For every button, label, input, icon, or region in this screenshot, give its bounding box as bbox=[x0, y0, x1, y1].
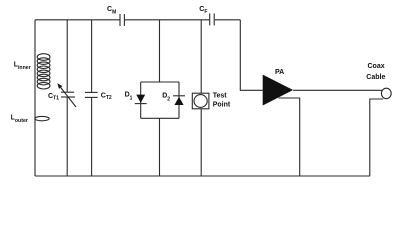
capacitor CT1 variable bbox=[61, 88, 76, 108]
wire bottom rail bbox=[35, 175, 370, 177]
wire left vertical bbox=[34, 20, 36, 176]
wire top right corner down bbox=[240, 20, 262, 91]
wire top rail left segment bbox=[35, 19, 120, 21]
arrowhead CT1 bbox=[57, 83, 62, 89]
diode D2 bbox=[173, 96, 185, 105]
wire diode box right bbox=[178, 82, 180, 118]
wire diode box top bbox=[141, 81, 179, 83]
svg-text:CT2: CT2 bbox=[101, 92, 112, 101]
wire PA lower to ground bbox=[279, 98, 300, 176]
wire CT2 branch bottom bbox=[91, 97, 93, 176]
coax connector circle bbox=[381, 88, 391, 98]
capacitor CT2 bbox=[85, 92, 98, 97]
svg-text:D1: D1 bbox=[125, 91, 133, 101]
svg-text:Coax: Coax bbox=[368, 63, 385, 70]
wire PA output bbox=[293, 89, 383, 91]
svg-text:Point: Point bbox=[213, 101, 231, 108]
svg-text:Linner: Linner bbox=[14, 61, 31, 71]
wire top rail middle segment bbox=[125, 19, 209, 21]
op-amp PA bbox=[263, 75, 293, 106]
capacitor CM bbox=[120, 14, 124, 26]
svg-text:PA: PA bbox=[275, 69, 284, 76]
wire diode box left bbox=[140, 82, 142, 118]
svg-text:CF: CF bbox=[199, 6, 207, 15]
wire coax shield riser bbox=[370, 99, 383, 176]
test point symbol bbox=[192, 93, 209, 109]
wire test point branch top bbox=[200, 20, 202, 93]
wire diode branch down bbox=[159, 118, 161, 176]
inductor L_outer loop bbox=[35, 116, 49, 120]
diode D1 bbox=[135, 95, 147, 104]
wire diode box bottom bbox=[141, 117, 179, 119]
wire CT1 branch top bbox=[66, 20, 68, 92]
wire test point branch bottom bbox=[200, 109, 202, 176]
wire CT2 branch top bbox=[91, 20, 93, 93]
capacitor CF bbox=[210, 13, 215, 25]
svg-text:D2: D2 bbox=[162, 93, 170, 103]
svg-text:CT1: CT1 bbox=[48, 93, 59, 102]
wire top rail right segment bbox=[215, 19, 241, 21]
svg-text:Louter: Louter bbox=[11, 114, 28, 124]
wire CT1 branch bottom bbox=[66, 97, 68, 176]
wire diode branch feed bbox=[159, 20, 161, 82]
svg-text:Cable: Cable bbox=[366, 74, 385, 81]
svg-text:CM: CM bbox=[107, 6, 116, 15]
inductor L_inner coil bbox=[37, 54, 50, 89]
svg-text:Test: Test bbox=[213, 92, 228, 99]
